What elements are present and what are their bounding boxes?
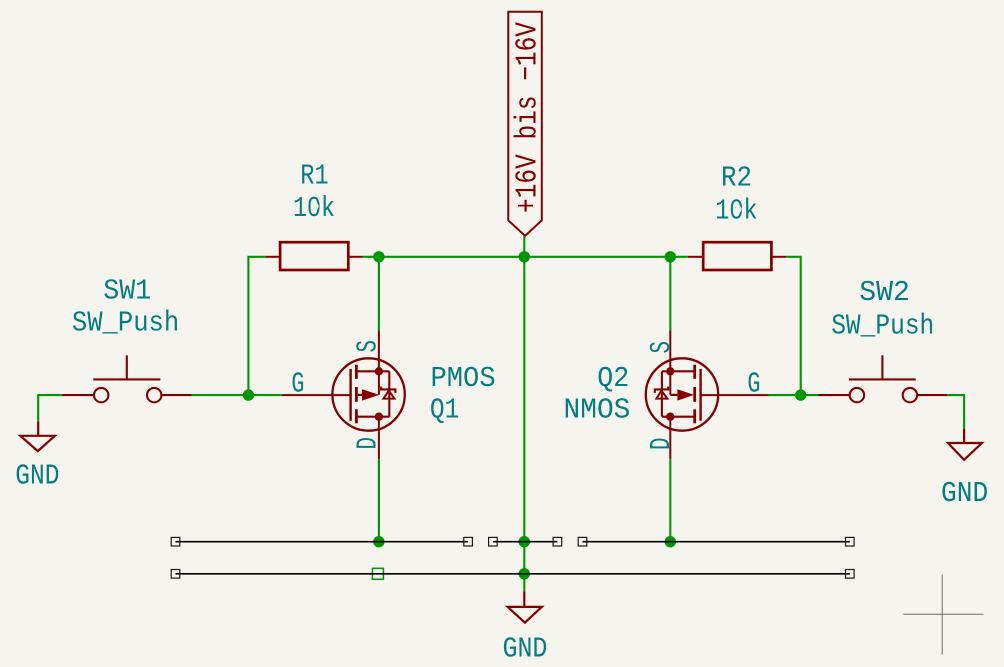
diode branch vertical bbox=[388, 371, 390, 416]
svg-text:D: D bbox=[352, 437, 385, 450]
diode branch vertical bbox=[661, 371, 663, 416]
graphic line1 segment a bbox=[176, 541, 469, 543]
body circle bbox=[332, 358, 404, 430]
D pin bbox=[669, 417, 671, 459]
PMOS arrow bbox=[362, 389, 379, 400]
svg-text:SW1: SW1 bbox=[103, 275, 151, 308]
diode bar with hooks bbox=[655, 387, 668, 393]
wire: SW1 right to junction bbox=[192, 394, 249, 396]
wire: PMOS S bbox=[378, 257, 380, 331]
ground right bbox=[948, 429, 982, 460]
gate pin bbox=[701, 394, 769, 396]
svg-text:SW2: SW2 bbox=[859, 276, 910, 309]
junction at NMOS gate bbox=[795, 389, 806, 400]
transistor Q2 NMOS bbox=[646, 331, 769, 460]
switch SW1 bbox=[62, 355, 191, 402]
svg-text:D: D bbox=[645, 438, 678, 451]
ground bottom bbox=[508, 591, 542, 622]
channel segments bbox=[693, 365, 696, 379]
NMOS arrow bbox=[677, 389, 694, 400]
wire: NMOS gate green bbox=[769, 394, 801, 396]
wire: NMOS S bbox=[669, 257, 671, 331]
svg-text:G: G bbox=[747, 368, 760, 401]
wire: top bus horizontal bbox=[363, 256, 688, 258]
svg-text:G: G bbox=[291, 368, 304, 401]
wire: SW2 right to GND bbox=[947, 395, 964, 429]
graphic line2 bbox=[176, 573, 850, 575]
graphic line1 segment b bbox=[493, 541, 558, 543]
switch SW2 bbox=[818, 355, 947, 402]
svg-text:GND: GND bbox=[941, 477, 988, 510]
zero glyph dot mask R1 value bbox=[312, 203, 319, 210]
zero glyph dot mask R2 value bbox=[735, 206, 742, 213]
gate pin bbox=[282, 394, 351, 396]
junction at R2 left / NMOS S bbox=[665, 251, 676, 262]
svg-text:SW_Push: SW_Push bbox=[72, 307, 179, 340]
resistor R1 bbox=[266, 242, 363, 270]
junction at R1 right / PMOS S bbox=[373, 251, 384, 262]
svg-text:S: S bbox=[352, 340, 385, 353]
diode bar with hooks bbox=[381, 387, 395, 393]
line endpoint squares bbox=[171, 537, 854, 578]
channel segments bbox=[355, 365, 358, 379]
top horizontal bbox=[356, 370, 389, 372]
junction at flag stem bbox=[519, 251, 530, 262]
wire: PMOS gate green bbox=[248, 394, 281, 396]
svg-text:NMOS: NMOS bbox=[564, 394, 631, 427]
svg-text:PMOS: PMOS bbox=[431, 362, 496, 395]
diode triangle bbox=[656, 391, 667, 399]
wire: NMOS D down bbox=[669, 459, 671, 542]
junction center on line1 bbox=[519, 536, 530, 547]
arrow connector bbox=[670, 394, 677, 396]
bottom horizontal bbox=[662, 416, 695, 418]
svg-text:SW_Push: SW_Push bbox=[831, 310, 934, 343]
resistor R2 bbox=[688, 242, 787, 270]
top horizontal bbox=[662, 370, 695, 372]
gate bar bbox=[699, 369, 701, 421]
dangling wire end square on line2 bbox=[372, 568, 383, 579]
svg-text:GND: GND bbox=[15, 460, 59, 493]
svg-text:R1: R1 bbox=[300, 160, 328, 193]
wire: PMOS D down bbox=[378, 459, 380, 542]
svg-text:GND: GND bbox=[503, 632, 548, 665]
bottom horizontal bbox=[356, 416, 389, 418]
S pin + internal vertical bbox=[669, 331, 671, 395]
junction PMOS D on line1 bbox=[373, 536, 384, 547]
svg-text:Q1: Q1 bbox=[430, 394, 460, 427]
wire: SW2 left bbox=[801, 394, 818, 396]
S pin + internal vertical bbox=[378, 331, 380, 395]
svg-text:+16V bis −16V: +16V bis −16V bbox=[511, 22, 546, 213]
power flag +16V bis -16V bbox=[508, 12, 542, 236]
wire: SW1 left to GND bbox=[38, 395, 62, 421]
wire: R2 right down bbox=[786, 257, 800, 395]
junction center on line2 bbox=[519, 568, 530, 579]
NMOS internal dots bbox=[666, 367, 674, 375]
svg-text:R2: R2 bbox=[721, 162, 752, 195]
svg-text:S: S bbox=[645, 341, 678, 354]
graphic line1 segment c bbox=[583, 541, 850, 543]
PMOS internal dots bbox=[375, 367, 383, 375]
wire: R1 left to gate junction bbox=[248, 257, 266, 395]
arrow connector bbox=[356, 394, 362, 396]
body circle bbox=[646, 358, 718, 430]
svg-text:Q2: Q2 bbox=[597, 362, 629, 395]
junction at PMOS gate bbox=[243, 389, 254, 400]
wire: flag stem + center vertical bbox=[523, 236, 525, 591]
cursor crosshair bbox=[903, 574, 983, 654]
transistor Q1 PMOS bbox=[282, 331, 405, 460]
diode triangle bbox=[383, 391, 394, 399]
D pin bbox=[378, 417, 380, 459]
junction NMOS D on line1 bbox=[665, 536, 676, 547]
ground left bbox=[20, 421, 55, 451]
gate bar bbox=[349, 369, 351, 421]
